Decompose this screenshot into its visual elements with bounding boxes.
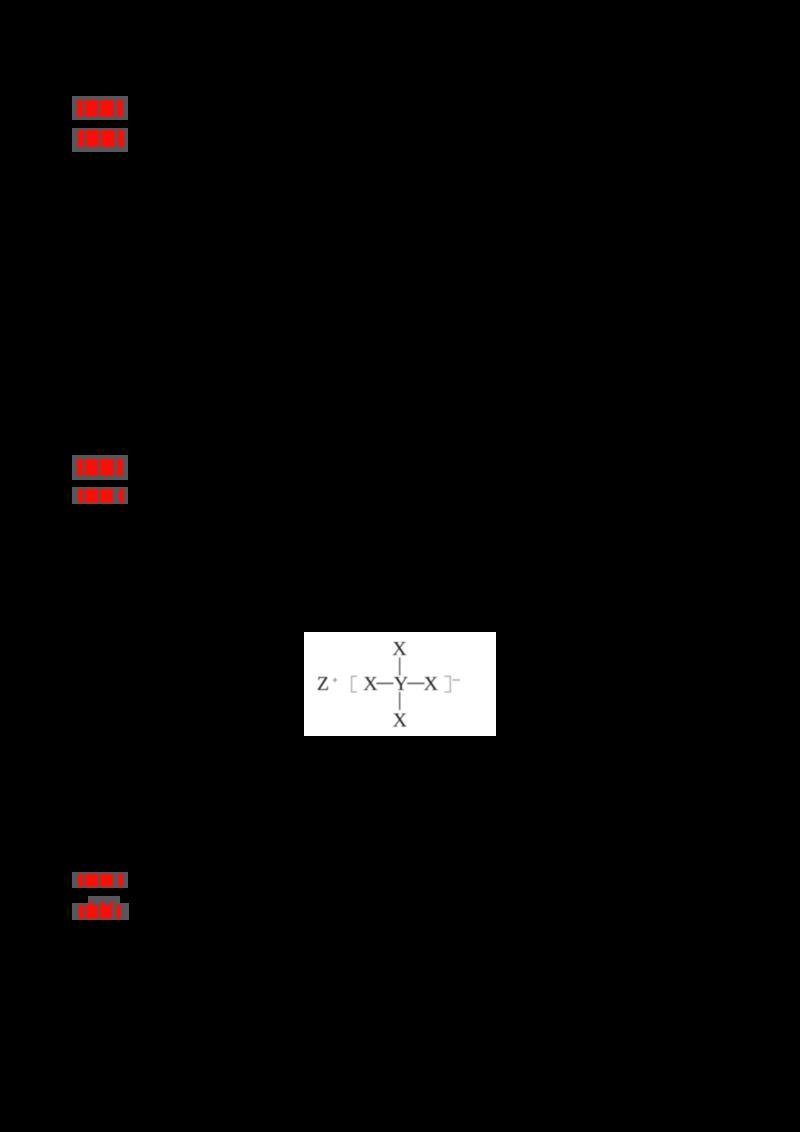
bond Y-X bottom: [399, 692, 401, 710]
svg-text:Y: Y: [394, 673, 408, 695]
analysis label 2 gray highlight box: [72, 487, 128, 504]
svg-text:X: X: [392, 638, 407, 660]
answer label 2 gray highlight box: [72, 455, 128, 480]
svg-text:X: X: [393, 710, 408, 732]
bond X-Y left: [376, 682, 393, 684]
analysis label 1 gray highlight box: [72, 128, 128, 152]
bond Y-X top: [399, 658, 401, 676]
answer label 1 gray highlight box: [72, 96, 128, 120]
svg-text:X: X: [424, 673, 439, 695]
embedded structure image (white): [304, 632, 496, 736]
svg-text:Z: Z: [317, 673, 329, 695]
analysis label 2 red text 【解析】: [78, 489, 83, 503]
answer label 3 red text 【答案】: [78, 874, 83, 887]
analysis label 3 gray highlight box: [72, 903, 129, 920]
analysis label 1 red text 【解析】: [78, 130, 84, 147]
analysis label 3 red text 【解析】: [89, 901, 92, 906]
bracket charge minus: [453, 679, 461, 681]
answer label 1 red text 【答案】: [77, 100, 83, 117]
left bracket: [352, 676, 357, 692]
analysis label 3 small gray fragment above: [88, 896, 120, 903]
right bracket: [444, 676, 450, 692]
answer label 3 gray highlight box: [72, 872, 128, 888]
svg-text:X: X: [363, 673, 378, 695]
answer label 2 red text 【答案】: [77, 459, 83, 476]
bond Y-X right: [407, 682, 424, 684]
